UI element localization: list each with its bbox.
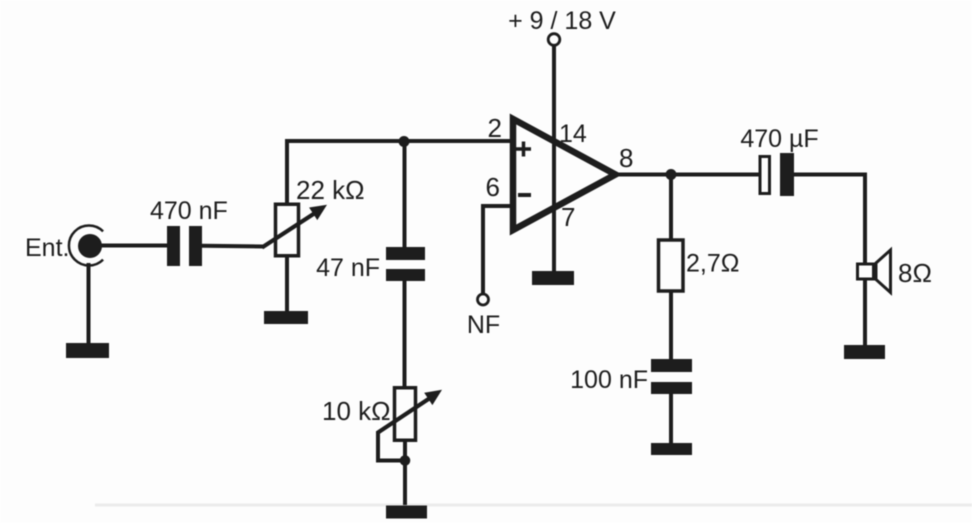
svg-text:14: 14 <box>559 120 587 148</box>
wire top rail to op-amp <box>285 139 513 143</box>
speaker LS1 cone <box>876 250 891 293</box>
junction node B <box>400 455 411 466</box>
svg-text:2,7Ω: 2,7Ω <box>686 250 739 278</box>
svg-text:47 nF: 47 nF <box>316 254 380 282</box>
ground (C4) <box>651 443 692 455</box>
op-amp minus input mark <box>518 193 531 197</box>
capacitor C3 470 uF plus plate <box>760 157 770 194</box>
power supply terminal <box>548 34 560 46</box>
svg-text:NF: NF <box>467 311 500 339</box>
wire C1 to R1 wiper <box>202 244 264 249</box>
wire R2 bottom to ground <box>403 442 407 505</box>
wire C2 to R2 <box>403 281 407 387</box>
svg-text:+ 9 / 18 V: + 9 / 18 V <box>508 7 616 35</box>
ground (pin 7) <box>532 271 574 285</box>
scan artifact band bottom <box>95 504 972 507</box>
potentiometer R1 22k body <box>276 204 299 256</box>
wire op-amp output <box>615 173 759 177</box>
svg-text:8Ω: 8Ω <box>898 258 932 288</box>
ground (R1) <box>264 311 308 324</box>
input jack connector <box>69 225 103 265</box>
wire bottom of R1 <box>285 257 289 313</box>
potentiometer R2 wiper arrow <box>378 390 442 433</box>
wire R3 to C4 <box>669 292 673 360</box>
capacitor C3 470 uF minus plate <box>780 153 794 196</box>
wire C4 to ground <box>669 394 673 444</box>
ground (input) <box>66 343 109 358</box>
capacitor C1 470 nF <box>167 226 202 266</box>
op-amp U1 <box>513 119 616 230</box>
junction node A <box>399 136 410 147</box>
svg-text:470 µF: 470 µF <box>740 125 818 153</box>
wire supply to pin7 ground <box>552 46 556 273</box>
svg-text:Ent.: Ent. <box>25 234 69 262</box>
wire jack to ground <box>87 263 91 345</box>
potentiometer R1 wiper arrow <box>262 205 327 248</box>
wire pin 6 to NF <box>483 206 513 294</box>
wire speaker to ground <box>863 281 867 348</box>
wire input to C1 <box>98 244 167 248</box>
ground (speaker) <box>844 345 885 359</box>
ground (R2) <box>386 506 427 519</box>
svg-text:6: 6 <box>486 172 500 202</box>
wire junction to C2 <box>403 141 407 248</box>
svg-text:10 kΩ: 10 kΩ <box>322 396 391 426</box>
resistor R3 2.7 ohm <box>659 240 684 291</box>
svg-text:22 kΩ: 22 kΩ <box>296 175 365 205</box>
svg-text:100 nF: 100 nF <box>570 366 648 394</box>
svg-text:7: 7 <box>561 202 575 232</box>
wire junction to R3 <box>669 175 673 242</box>
wire top of R1 <box>285 141 289 205</box>
capacitor C4 100 nF <box>651 359 692 394</box>
wire C3 to speaker <box>794 175 865 264</box>
potentiometer R2 10k body <box>395 388 416 441</box>
NF terminal <box>478 294 489 305</box>
op-amp plus input mark <box>516 142 531 157</box>
wire R2 rheostat link <box>378 431 402 461</box>
svg-text:2: 2 <box>488 113 502 143</box>
svg-text:8: 8 <box>619 143 633 173</box>
capacitor C2 47 nF <box>386 247 425 281</box>
speaker LS1 magnet <box>858 264 874 279</box>
svg-text:470 nF: 470 nF <box>150 197 228 225</box>
junction node out <box>666 169 677 180</box>
